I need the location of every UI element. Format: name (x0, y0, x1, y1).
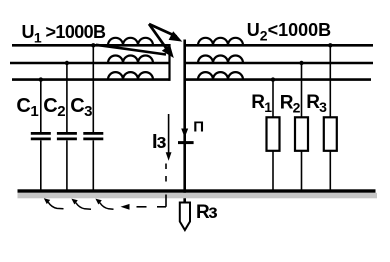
wire HV phase bus L1 (left, top) (12, 44, 170, 47)
wire C2 to ground (66, 140, 68, 190)
wire LV phase bus L2 (right, middle) (185, 62, 373, 65)
transformer HV winding, phase 2 coil (108, 56, 153, 63)
wire R3 to ground (329, 151, 331, 190)
wire R1 to ground (272, 151, 274, 190)
capacitor C1 bottom plate (31, 137, 51, 140)
transformer HV winding, phase 1 coil (108, 38, 153, 45)
earth current hook arrow toward C3 ground (95, 199, 101, 205)
node C3 tap on bus L1 (91, 43, 95, 47)
dashed earth-current return path (vertical dashes) (165, 164, 167, 170)
resistor R3 body (324, 117, 337, 151)
breakdown arrow from phase bus (shallow line) (96, 45, 166, 55)
svg-text:Rз: Rз (196, 202, 217, 223)
wire HV phase bus L2 (left, middle) (10, 62, 170, 65)
breakdown arrow to LV star point (line) (149, 24, 177, 37)
earth current hook arrow toward C2 ground (71, 199, 77, 205)
transformer LV winding, phase 2 coil (198, 56, 243, 63)
breakdown arrow to HV star point (head) (162, 45, 174, 58)
current arrow I3 (line) (168, 114, 170, 154)
breakdown fuse П arrow on conductor (181, 129, 188, 138)
ground surface line (18, 189, 376, 193)
wire LV phase bus L3 (right, bottom) (185, 78, 371, 81)
capacitor C1 top plate (31, 132, 51, 135)
breakdown arrow to LV star point (head) (169, 31, 183, 41)
wire C1 to ground (40, 140, 42, 190)
wire C2 to bus L2 (66, 63, 68, 132)
node R3 tap on bus L1 (328, 43, 332, 47)
earth electrode rod (180, 203, 190, 231)
ground surface grey band (18, 193, 378, 199)
dashed earth-current return arrowhead (left) (121, 204, 130, 210)
node R1 tap on bus L3 (271, 77, 275, 81)
capacitor C2 bottom plate (57, 137, 77, 140)
breakdown arrow to HV star point (line) (149, 24, 168, 50)
wire R3 to bus L1 (329, 45, 331, 117)
wire LV star point / earthing conductor (vertical) (183, 40, 186, 204)
resistor R2 body (295, 117, 308, 151)
node C2 tap on bus L2 (65, 61, 69, 65)
current arrow I3 (head) (166, 152, 172, 160)
wire LV phase bus L1 (right, top) (185, 44, 373, 47)
wire C1 to bus L3 (40, 80, 42, 133)
wire C3 to bus L1 (92, 45, 94, 132)
capacitor C3 top plate (83, 132, 103, 135)
resistor R1 body (267, 117, 280, 151)
dashed earth-current return path (horizontal dashes) (157, 206, 166, 208)
wire HV phase bus L3 (left, bottom) (12, 78, 170, 81)
capacitor C2 top plate (57, 132, 77, 135)
transformer HV winding, phase 3 coil (108, 72, 153, 79)
transformer LV winding, phase 1 coil (198, 38, 243, 45)
svg-text:П: П (193, 119, 204, 136)
transformer LV winding, phase 3 coil (198, 72, 243, 79)
wire C3 to ground (92, 140, 94, 190)
wire R2 to bus L2 (301, 63, 303, 117)
capacitor C3 bottom plate (83, 137, 103, 140)
wire R2 to ground (301, 151, 303, 190)
node R2 tap on bus L2 (299, 61, 303, 65)
node C1 tap on bus L3 (39, 77, 43, 81)
breakdown fuse П electrode bar (178, 141, 194, 144)
svg-text:U2<1000В: U2<1000В (247, 20, 331, 44)
svg-text:Iз: Iз (152, 131, 167, 153)
wire R1 to bus L3 (272, 80, 274, 118)
wire HV star point (vertical bar joining HV winding ends) (168, 44, 170, 81)
earth current hook arrow toward C1 ground (44, 198, 50, 204)
